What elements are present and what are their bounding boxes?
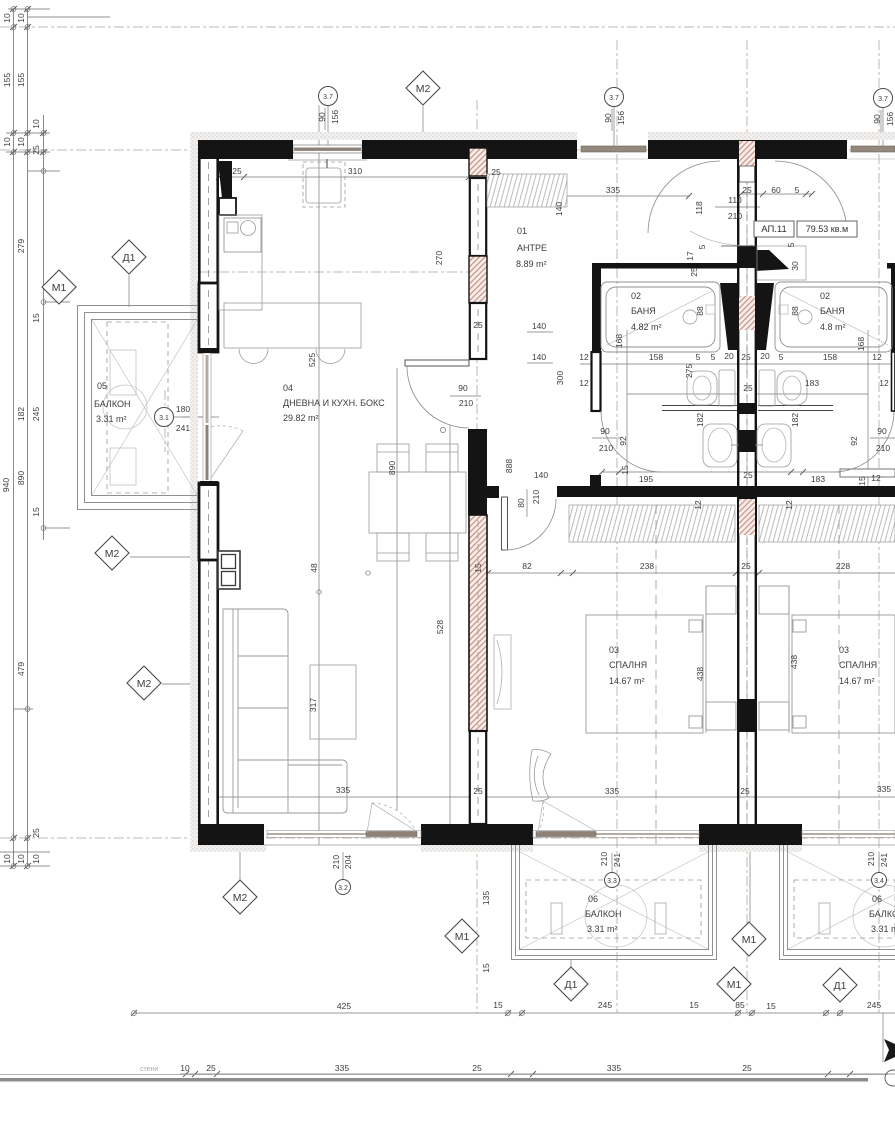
- svg-text:25: 25: [741, 352, 751, 362]
- entry door arc right apartment: [775, 161, 847, 233]
- svg-text:М2: М2: [137, 678, 152, 690]
- svg-text:25: 25: [740, 786, 750, 796]
- bath partition left y405-411: [662, 406, 833, 411]
- svg-text:5: 5: [779, 352, 784, 362]
- svg-text:10: 10: [16, 854, 26, 864]
- svg-text:10: 10: [16, 137, 26, 147]
- svg-text:04: 04: [283, 383, 293, 393]
- dim line hall 140 y332: [527, 331, 553, 333]
- leader squiggle near party wall head: [690, 231, 753, 245]
- svg-text:8.89 m²: 8.89 m²: [516, 259, 547, 269]
- svg-text:5: 5: [696, 352, 701, 362]
- dim line bath row2 y388: [627, 393, 737, 395]
- svg-text:25: 25: [741, 561, 751, 571]
- svg-text:940: 940: [1, 478, 11, 492]
- outlined segment 186-256: [470, 178, 486, 256]
- stipple top band right: [648, 132, 895, 140]
- duct wedge horizontal above right bath: [755, 250, 789, 271]
- balcony06 left frame: [512, 845, 717, 960]
- dim line 425 row y1013: [134, 1012, 895, 1014]
- svg-text:60: 60: [771, 185, 781, 195]
- door label line bedroom 80/210: [526, 489, 528, 517]
- svg-text:335: 335: [335, 1063, 349, 1073]
- svg-text:25: 25: [473, 786, 483, 796]
- svg-text:140: 140: [554, 202, 564, 216]
- bed right bedroom: [759, 586, 895, 733]
- svg-text:3.31 m²: 3.31 m²: [871, 924, 895, 934]
- svg-text:438: 438: [695, 667, 705, 681]
- black jog 246-268: [737, 246, 757, 268]
- living room door leaf and arc: [405, 360, 469, 366]
- top exterior wall solid segments: [198, 140, 847, 845]
- svg-text:48: 48: [309, 563, 319, 573]
- top window w1 293-362: [288, 140, 367, 160]
- vertical dim line x319 window axis: [318, 105, 320, 845]
- kitchen counter: [219, 215, 262, 310]
- svg-text:02: 02: [631, 291, 641, 301]
- svg-text:425: 425: [337, 1001, 351, 1011]
- outlined segment 731-824: [470, 731, 486, 824]
- hall bottom dim y472: [602, 471, 895, 473]
- sink right: [755, 424, 791, 467]
- dim line hall top y196: [487, 195, 690, 197]
- axis bottom horizontal y838: [0, 837, 895, 839]
- svg-text:20: 20: [724, 351, 734, 361]
- svg-text:СПАЛНЯ: СПАЛНЯ: [839, 660, 877, 670]
- svg-text:15: 15: [493, 1000, 503, 1010]
- svg-text:80: 80: [516, 498, 526, 508]
- bath right door arc: [833, 411, 894, 472]
- closet hatch hall: [487, 174, 567, 207]
- bathtub left: [601, 282, 720, 352]
- wall top segment 3: [648, 140, 847, 159]
- svg-text:241: 241: [612, 853, 622, 867]
- svg-text:14.67 m²: 14.67 m²: [609, 676, 645, 686]
- svg-text:12: 12: [879, 378, 889, 388]
- balcony05 left frame: [78, 306, 199, 510]
- svg-text:М1: М1: [727, 979, 742, 991]
- red pier 296-330: [739, 296, 755, 330]
- entry door right top: [847, 146, 895, 159]
- svg-text:210: 210: [459, 398, 473, 408]
- svg-text:25: 25: [206, 1063, 216, 1073]
- svg-text:245: 245: [867, 1000, 881, 1010]
- svg-text:03: 03: [609, 645, 619, 655]
- svg-text:183: 183: [805, 378, 819, 388]
- balcony door swing living (bottom): [367, 803, 416, 833]
- diamond markers: [42, 71, 857, 1002]
- svg-text:310: 310: [348, 166, 362, 176]
- svg-text:30: 30: [790, 261, 800, 271]
- dim leader 110/210: [715, 206, 760, 208]
- bath left door arc: [601, 411, 662, 472]
- svg-text:БАЛКОН: БАЛКОН: [94, 399, 130, 409]
- axis vertical x617: [616, 40, 618, 1013]
- entry door arc left apartment: [648, 161, 720, 233]
- dim line bath row y364: [580, 363, 895, 365]
- svg-text:12: 12: [579, 378, 589, 388]
- red pier 499-535: [739, 499, 755, 535]
- svg-text:182: 182: [16, 407, 26, 421]
- svg-text:245: 245: [598, 1000, 612, 1010]
- svg-text:279: 279: [16, 239, 26, 253]
- svg-text:210: 210: [331, 855, 341, 869]
- axis vertical x879: [878, 40, 880, 1013]
- svg-text:Д1: Д1: [123, 252, 136, 264]
- vertical dim line x627 bath: [626, 330, 628, 497]
- balcony door swing living (left wall): [211, 426, 243, 478]
- svg-text:90: 90: [317, 112, 327, 122]
- red pier 148-176: [469, 148, 487, 176]
- interior wall W1 x469-487 living/hall: [468, 148, 499, 824]
- door label line right bath: [870, 437, 895, 439]
- svg-text:БАЛКОН: БАЛКОН: [869, 909, 895, 919]
- svg-text:СПАЛНЯ: СПАЛНЯ: [609, 660, 647, 670]
- svg-text:10: 10: [2, 13, 12, 23]
- svg-text:17: 17: [685, 251, 695, 261]
- svg-text:204: 204: [343, 855, 353, 869]
- door label line living: [450, 395, 481, 397]
- svg-text:М2: М2: [233, 892, 248, 904]
- svg-text:25: 25: [743, 470, 753, 480]
- svg-text:3.31 m²: 3.31 m²: [587, 924, 618, 934]
- apartment info boxes: [754, 221, 857, 237]
- chain tick slashes: [10, 6, 47, 869]
- svg-text:Д1: Д1: [565, 979, 578, 991]
- svg-text:12: 12: [579, 352, 589, 362]
- svg-text:335: 335: [877, 784, 891, 794]
- svg-text:15: 15: [766, 1001, 776, 1011]
- stipple top band left: [191, 132, 577, 140]
- vertical dim line x397 table: [396, 368, 398, 810]
- svg-text:182: 182: [695, 413, 705, 427]
- axis kitchen horizontal y272: [200, 271, 469, 273]
- svg-text:317: 317: [308, 698, 318, 712]
- svg-text:300: 300: [555, 371, 565, 385]
- svg-text:02: 02: [820, 291, 830, 301]
- TV cabinet: [218, 551, 240, 589]
- red pier 256-303: [469, 256, 487, 303]
- svg-text:15: 15: [31, 313, 41, 323]
- svg-text:06: 06: [872, 894, 882, 904]
- svg-text:АНТРЕ: АНТРЕ: [517, 243, 547, 253]
- bottom wall segment 3: [699, 824, 802, 845]
- svg-text:228: 228: [836, 561, 850, 571]
- dim line kitchen top y177: [219, 176, 469, 178]
- svg-text:156: 156: [616, 111, 626, 125]
- dimension texts rotated: [307, 110, 895, 973]
- svg-text:25: 25: [31, 828, 41, 838]
- svg-text:890: 890: [16, 471, 26, 485]
- axis B horizontal y150: [0, 149, 895, 151]
- bedroom1 mirror/cabinet left: [494, 635, 511, 709]
- bedroom centerline dashed: [655, 505, 657, 845]
- svg-text:БАЛКОН: БАЛКОН: [585, 909, 621, 919]
- svg-text:06: 06: [588, 894, 598, 904]
- axis A horizontal y27: [0, 26, 895, 28]
- bath right wall sliver at image edge: [891, 263, 895, 411]
- svg-text:155: 155: [16, 73, 26, 87]
- dimension texts horizontal: [176, 166, 891, 1073]
- bottom wall segment 1: [198, 824, 264, 845]
- svg-text:БАНЯ: БАНЯ: [820, 306, 845, 316]
- svg-text:245: 245: [31, 407, 41, 421]
- svg-text:4.82 m²: 4.82 m²: [631, 322, 662, 332]
- axis vertical x747 party wall: [746, 40, 748, 1013]
- balcony05 diagonals and circle: [92, 320, 197, 495]
- chain tick circles: [11, 7, 46, 869]
- bedroom1 door leaf and arc: [502, 497, 508, 550]
- svg-text:БАНЯ: БАНЯ: [631, 306, 656, 316]
- svg-text:М1: М1: [742, 934, 757, 946]
- svg-text:25: 25: [473, 320, 483, 330]
- svg-text:210: 210: [599, 852, 609, 866]
- svg-text:5: 5: [786, 242, 796, 247]
- dim leader 90/210 entry window mid: [324, 108, 326, 130]
- svg-text:156: 156: [885, 112, 895, 126]
- svg-text:15: 15: [857, 476, 867, 486]
- entry door left top: [577, 146, 648, 159]
- duct wedge left bath: [720, 283, 737, 350]
- svg-text:180: 180: [176, 404, 190, 414]
- niche band right corridor 840-895 y469-477: [840, 469, 895, 477]
- svg-text:10: 10: [16, 13, 26, 23]
- svg-text:Д1: Д1: [834, 980, 847, 992]
- bump at 590-601: [590, 475, 601, 486]
- dim line bottom row y1074: [180, 1073, 895, 1075]
- exterior wall insulation stipple bands: [190, 132, 895, 852]
- svg-text:3.7: 3.7: [878, 96, 888, 103]
- svg-text:270: 270: [434, 251, 444, 265]
- left balcony window/door band: [200, 348, 218, 486]
- dining table: [369, 444, 466, 561]
- svg-text:140: 140: [532, 352, 546, 362]
- svg-text:158: 158: [823, 352, 837, 362]
- svg-text:210: 210: [599, 443, 613, 453]
- svg-text:210: 210: [531, 490, 541, 504]
- svg-text:88: 88: [695, 306, 705, 316]
- svg-text:25: 25: [491, 167, 501, 177]
- svg-text:3.31 m²: 3.31 m²: [96, 414, 127, 424]
- svg-text:25: 25: [232, 166, 242, 176]
- bottom window living 267-421: [264, 831, 421, 846]
- toilet right: [759, 370, 807, 406]
- svg-text:241: 241: [879, 853, 889, 867]
- svg-text:4.8 m²: 4.8 m²: [820, 322, 846, 332]
- svg-text:12: 12: [693, 500, 703, 510]
- svg-text:168: 168: [856, 337, 866, 351]
- vertical dim line x450 528: [449, 425, 451, 847]
- svg-text:182: 182: [790, 413, 800, 427]
- solid black block 429-515: [468, 429, 487, 515]
- svg-text:438: 438: [789, 655, 799, 669]
- svg-text:890: 890: [387, 461, 397, 475]
- tick slashes on dim rows: [131, 174, 890, 1077]
- svg-text:25: 25: [742, 185, 752, 195]
- svg-text:10: 10: [2, 854, 12, 864]
- black block 699-732: [737, 699, 757, 732]
- svg-text:90: 90: [458, 383, 468, 393]
- svg-text:3.2: 3.2: [338, 885, 348, 892]
- bath door leaf left (black): [592, 352, 601, 411]
- svg-text:140: 140: [534, 470, 548, 480]
- bottom window bedroom2 802-895: [802, 831, 895, 846]
- svg-text:12: 12: [784, 500, 794, 510]
- svg-text:12: 12: [872, 352, 882, 362]
- wall W3 hall/bath horizontal: [592, 263, 737, 269]
- svg-text:стени: стени: [140, 1066, 158, 1073]
- party wall x737-757: [737, 140, 757, 845]
- svg-text:335: 335: [606, 185, 620, 195]
- svg-text:528: 528: [435, 620, 445, 634]
- black block at W2 junction: [737, 486, 757, 499]
- svg-text:5: 5: [711, 352, 716, 362]
- svg-text:155: 155: [2, 73, 12, 87]
- bottom separator thick gray line: [0, 1078, 868, 1082]
- svg-text:140: 140: [532, 321, 546, 331]
- outlined segment 305-359: [470, 303, 486, 359]
- level circles: [155, 87, 893, 895]
- svg-text:90: 90: [877, 426, 887, 436]
- svg-text:195: 195: [639, 474, 653, 484]
- sink left: [703, 424, 739, 467]
- svg-text:10: 10: [180, 1063, 190, 1073]
- svg-text:335: 335: [336, 785, 350, 795]
- bottom wall segment 2: [421, 824, 533, 845]
- svg-text:110: 110: [728, 195, 742, 205]
- dim line hall 140 y363: [527, 362, 553, 364]
- svg-text:М1: М1: [455, 931, 470, 943]
- wardrobe hatch bedroom1: [569, 505, 735, 542]
- svg-text:12: 12: [871, 473, 881, 483]
- bedroom bottom dim y797: [487, 796, 895, 798]
- svg-text:90: 90: [603, 113, 613, 123]
- svg-text:335: 335: [607, 1063, 621, 1073]
- left wall pier box 483-560: [199, 483, 218, 560]
- svg-text:03: 03: [839, 645, 849, 655]
- svg-text:15: 15: [689, 1000, 699, 1010]
- dim line entry right y194: [741, 193, 812, 195]
- svg-text:25: 25: [31, 145, 41, 155]
- svg-text:158: 158: [649, 352, 663, 362]
- black block bottom junction: [737, 824, 757, 845]
- black block 405-414: [737, 403, 757, 414]
- bed left bedroom: [586, 586, 736, 733]
- svg-text:90: 90: [600, 426, 610, 436]
- svg-text:25: 25: [472, 1063, 482, 1073]
- wall top segment 2: [362, 140, 577, 159]
- svg-text:М1: М1: [52, 282, 67, 294]
- svg-text:118: 118: [694, 201, 704, 215]
- room labels: [94, 226, 895, 934]
- svg-text:5: 5: [795, 185, 800, 195]
- svg-text:М2: М2: [105, 548, 120, 560]
- svg-text:25: 25: [689, 267, 699, 277]
- svg-text:ДНЕВНА И КУХН. БОКС: ДНЕВНА И КУХН. БОКС: [283, 398, 385, 408]
- svg-text:525: 525: [307, 353, 317, 367]
- left dimension chain lines: [0, 9, 110, 866]
- svg-text:25: 25: [743, 383, 753, 393]
- svg-text:20: 20: [760, 351, 770, 361]
- svg-text:АП.11: АП.11: [761, 224, 787, 235]
- svg-text:888: 888: [504, 459, 514, 473]
- svg-text:15: 15: [620, 465, 630, 475]
- wall W2 hall/bedroom horizontal: [557, 475, 895, 497]
- bedroom top dim y573: [469, 572, 895, 574]
- svg-text:92: 92: [849, 436, 859, 446]
- svg-text:3.4: 3.4: [874, 878, 884, 885]
- svg-text:10: 10: [2, 137, 12, 147]
- svg-text:3.3: 3.3: [607, 878, 617, 885]
- bathtub right: [775, 282, 892, 352]
- axis vertical x165 balcony05: [164, 390, 166, 452]
- svg-text:10: 10: [31, 854, 41, 864]
- sofa L-shape: [223, 609, 347, 813]
- left chain dimension texts (rotated): [1, 13, 41, 864]
- svg-text:88: 88: [790, 306, 800, 316]
- living bottom dim y797: [219, 796, 477, 798]
- left wall pier box 283-352: [199, 283, 218, 352]
- axis vertical x477: [476, 100, 478, 1013]
- balcony06 right frame: [780, 845, 895, 960]
- svg-text:29.82 m²: 29.82 m²: [283, 413, 319, 423]
- kitchen bar peninsula: [224, 303, 361, 364]
- svg-text:479: 479: [16, 662, 26, 676]
- svg-text:238: 238: [640, 561, 654, 571]
- svg-text:79.53 кв.м: 79.53 кв.м: [806, 224, 848, 234]
- svg-text:3.1: 3.1: [159, 415, 169, 422]
- wall W4 bath left vertical: [592, 263, 601, 355]
- svg-text:14.67 m²: 14.67 m²: [839, 676, 875, 686]
- bottom window bedroom1 533-699: [533, 831, 699, 846]
- svg-text:М2: М2: [416, 83, 431, 95]
- svg-text:10: 10: [31, 119, 41, 129]
- stipple left band: [190, 132, 198, 852]
- svg-text:210: 210: [728, 211, 742, 221]
- svg-text:15: 15: [473, 563, 483, 573]
- svg-text:156: 156: [330, 110, 340, 124]
- svg-text:275: 275: [684, 364, 694, 378]
- svg-text:210: 210: [876, 443, 890, 453]
- vertical dim line x868 bath right: [867, 330, 869, 497]
- svg-text:85: 85: [735, 1000, 745, 1010]
- svg-text:05: 05: [97, 381, 107, 391]
- balcony door swing bedroom1 (bottom): [538, 801, 596, 833]
- svg-text:168: 168: [614, 334, 624, 348]
- coffee table: [310, 665, 356, 739]
- svg-text:3.7: 3.7: [323, 94, 333, 101]
- svg-text:92: 92: [618, 436, 628, 446]
- stems from circles to walls: [327, 105, 329, 146]
- svg-text:3.7: 3.7: [609, 95, 619, 102]
- left exterior wall with edges and dashed core: [199, 140, 218, 845]
- north/black triangle bottom right: [882, 1013, 884, 1062]
- svg-text:5: 5: [697, 244, 707, 249]
- svg-text:210: 210: [866, 852, 876, 866]
- balcony05 dashed inner rect: [107, 322, 168, 493]
- svg-text:241: 241: [176, 423, 190, 433]
- wall top segment 1: [198, 140, 293, 159]
- door label line left bath: [592, 437, 620, 439]
- svg-text:335: 335: [605, 786, 619, 796]
- interior dimension lines: [59, 105, 895, 1074]
- svg-text:25: 25: [742, 1063, 752, 1073]
- kitchen corner duct wedge: [218, 161, 232, 198]
- svg-text:90: 90: [872, 114, 882, 124]
- notch to W2: [487, 486, 499, 498]
- bedroom1 armchair: [530, 750, 551, 802]
- svg-text:135: 135: [481, 891, 491, 905]
